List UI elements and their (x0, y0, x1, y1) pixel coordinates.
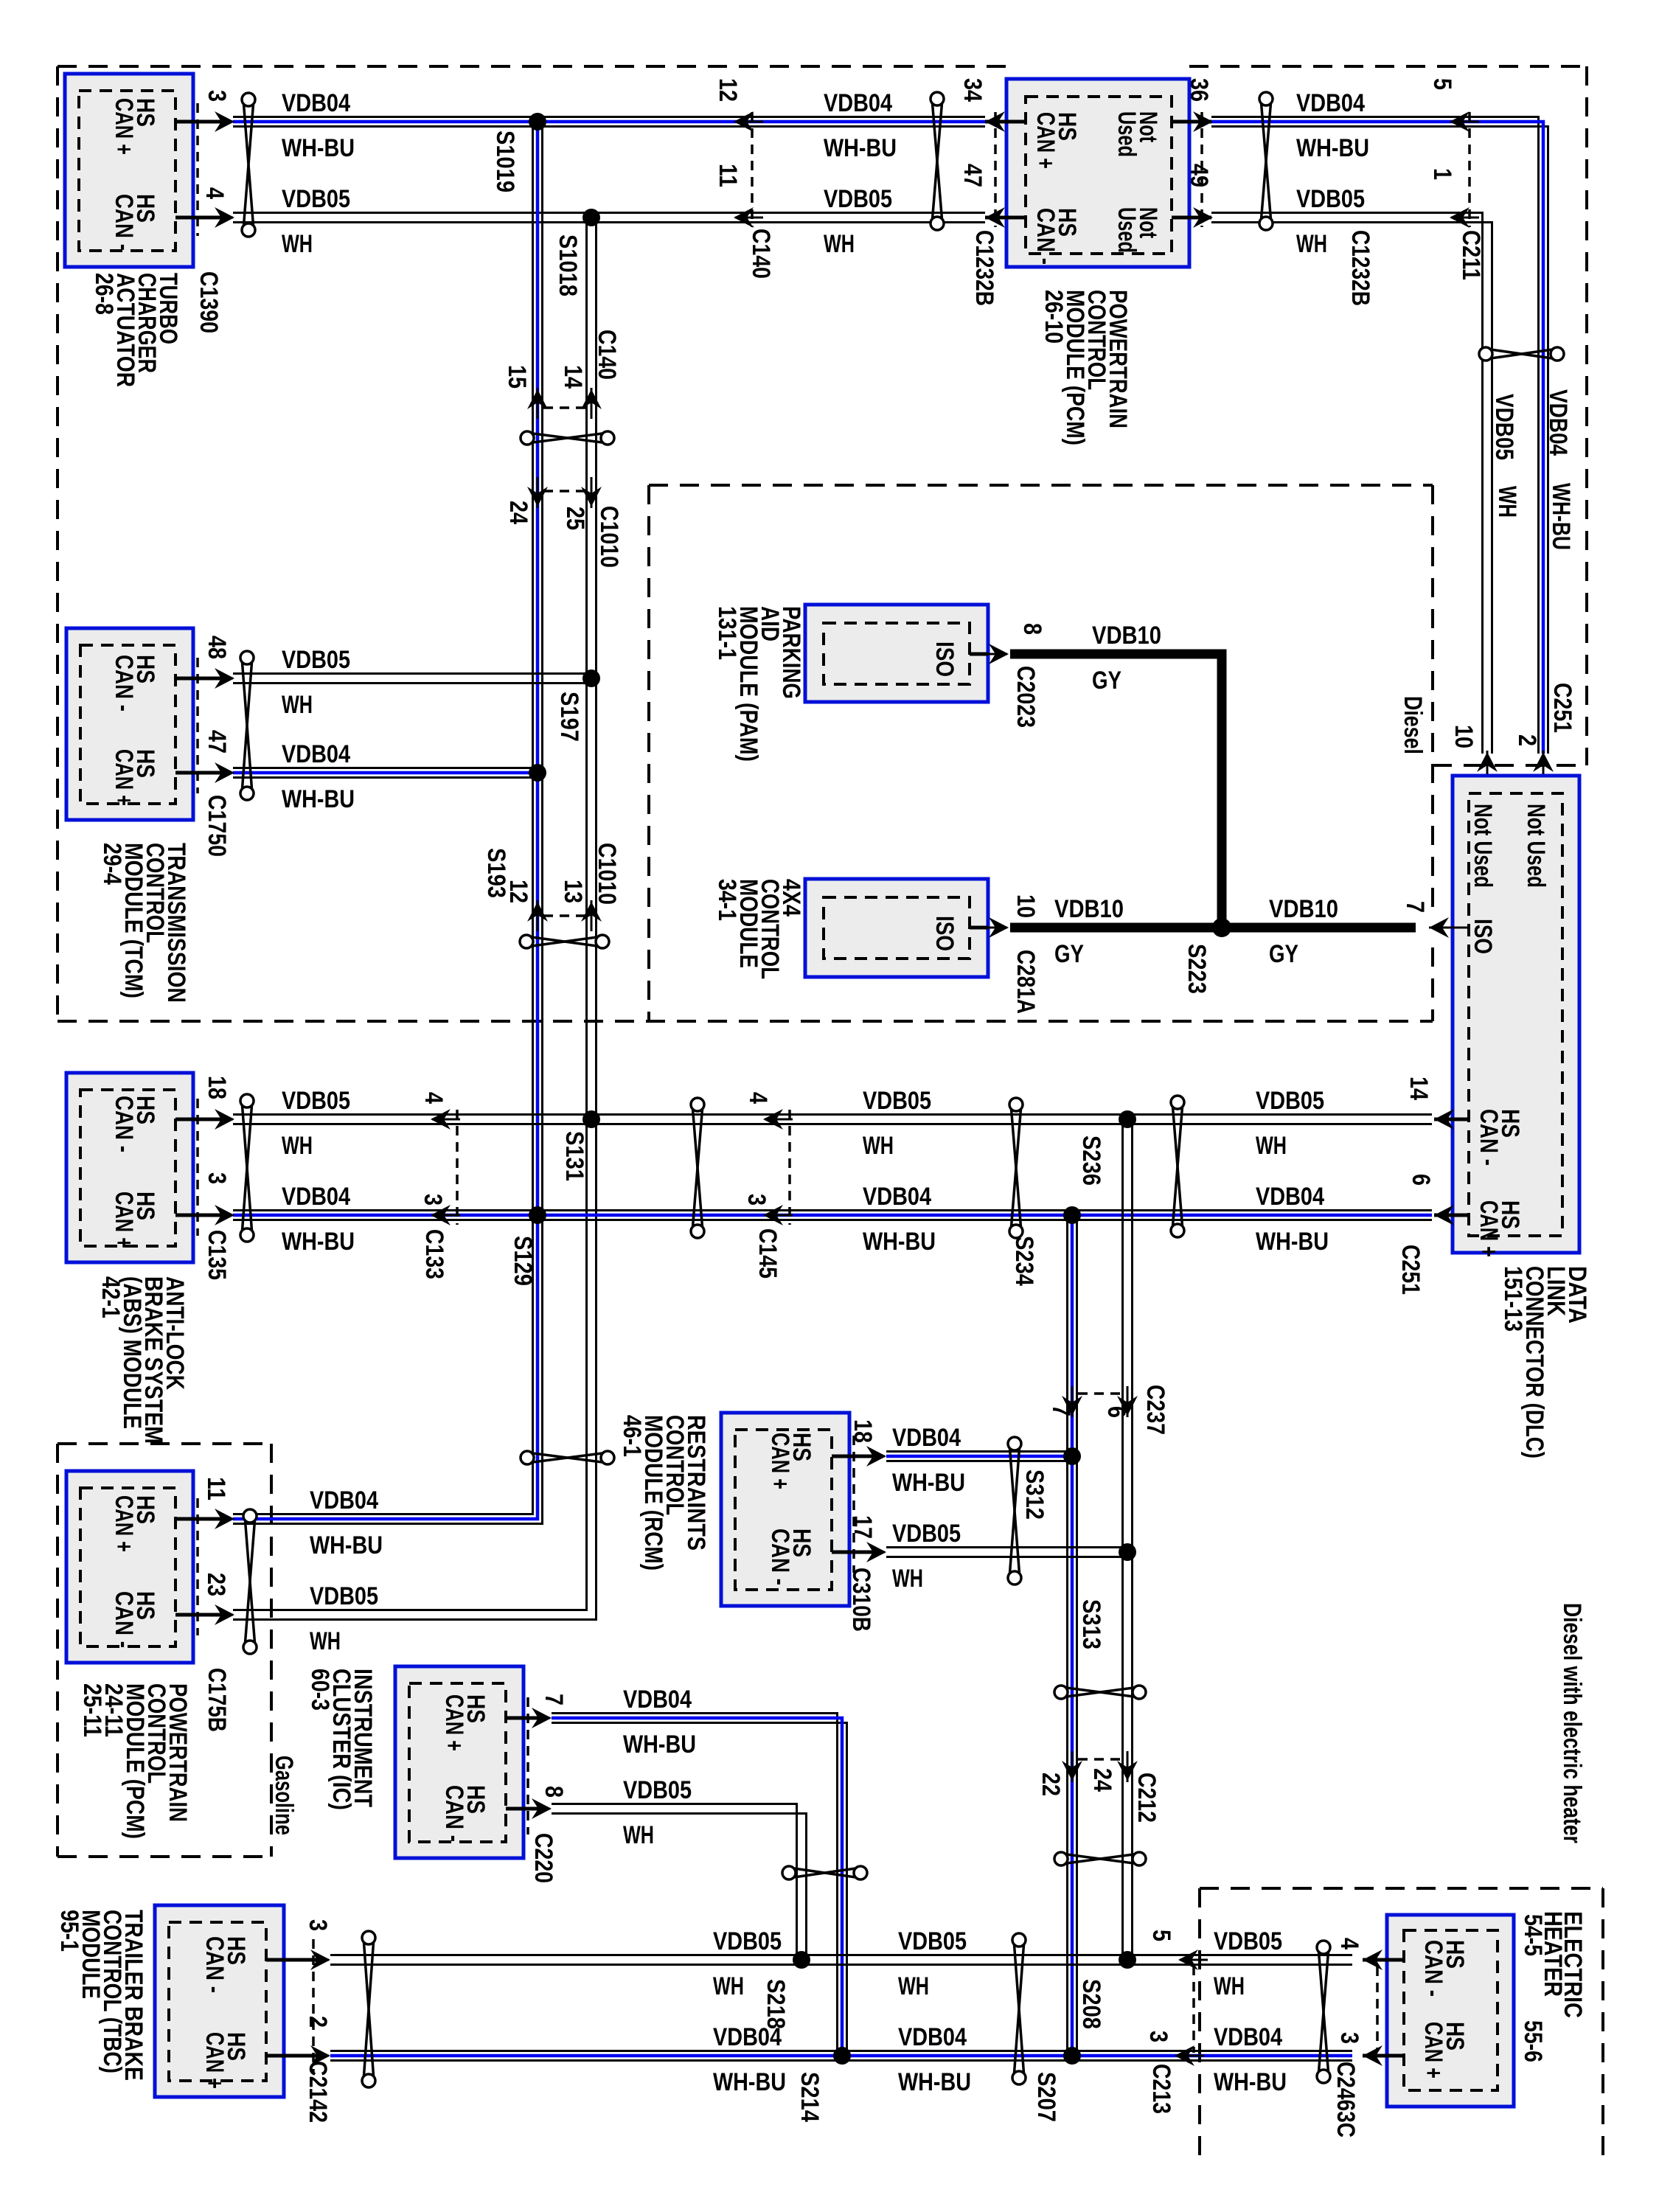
svg-text:ISO: ISO (1469, 919, 1497, 954)
svg-text:46-1: 46-1 (618, 1415, 646, 1457)
svg-text:GY: GY (1054, 940, 1084, 968)
box restraints control module (RCM) (721, 1413, 849, 1606)
box turbo charger actuator (65, 74, 193, 267)
diesel region dashed boundary bottom (58, 1020, 1433, 1023)
wire VDB05 WH PCM pin 49 to C211 and down to DLC pin 10 (1211, 213, 1483, 754)
svg-text:3: 3 (304, 1919, 332, 1931)
svg-text:CAN +: CAN + (110, 98, 138, 155)
svg-text:CAN +: CAN + (110, 1495, 138, 1552)
svg-text:CAN -: CAN - (1032, 208, 1060, 265)
svg-text:WH: WH (1493, 486, 1521, 518)
svg-text:CAN +: CAN + (1032, 112, 1060, 169)
svg-text:22: 22 (1037, 1773, 1065, 1796)
svg-text:34-1: 34-1 (713, 879, 741, 921)
svg-text:VDB05: VDB05 (1490, 394, 1518, 460)
svg-text:WH-BU: WH-BU (713, 2068, 786, 2096)
DLC pin 14 stub and arrow (1434, 1118, 1469, 1121)
svg-text:VDB04: VDB04 (1256, 1183, 1324, 1211)
diesel corridor dashed boundary right (1585, 66, 1588, 765)
svg-text:VDB04: VDB04 (623, 1686, 692, 1714)
svg-text:34: 34 (959, 78, 987, 102)
connector C133 pins 4 3 (432, 1119, 460, 1121)
svg-text:C212: C212 (1133, 1773, 1161, 1823)
wire VDB04 WH-BU vertical bus S1019 down to gasoline PCM pin 11 (233, 122, 533, 1514)
svg-text:5: 5 (1147, 1930, 1175, 1941)
svg-text:Used: Used (1113, 111, 1141, 157)
svg-text:CAN -: CAN - (110, 655, 138, 712)
twisted pair on vertical bus below C140 (527, 433, 608, 443)
svg-text:CAN +: CAN + (110, 1192, 138, 1248)
svg-text:54-5: 54-5 (1519, 1914, 1547, 1956)
svg-text:17: 17 (849, 1515, 877, 1539)
svg-text:WH-BU: WH-BU (1256, 1228, 1329, 1256)
svg-text:WH: WH (623, 1821, 654, 1849)
svg-text:S208: S208 (1077, 1979, 1105, 2029)
wire VDB04 WH-BU TBC pin 2 to electric heater pin 3 (330, 2050, 1352, 2052)
svg-text:VDB04: VDB04 (1214, 2023, 1282, 2051)
svg-text:VDB04: VDB04 (863, 1183, 931, 1211)
connector C237 pins 7 6 (1071, 1386, 1074, 1417)
connector C1010 pins 12 13 (537, 900, 539, 931)
svg-text:VDB10: VDB10 (1269, 895, 1338, 923)
svg-text:C1750: C1750 (203, 795, 231, 857)
svg-text:C1010: C1010 (595, 506, 623, 568)
svg-text:18: 18 (203, 1076, 231, 1099)
svg-text:VDB04: VDB04 (898, 2023, 967, 2051)
svg-text:VDB04: VDB04 (1296, 89, 1365, 117)
splice S129 (529, 1206, 546, 1224)
svg-text:C135: C135 (203, 1230, 231, 1280)
svg-text:S214: S214 (796, 2072, 824, 2122)
svg-text:Not Used: Not Used (1522, 804, 1550, 888)
svg-text:CAN -: CAN - (201, 1936, 229, 1993)
wire VDB05 WH vertical S236 to S208 (1121, 1119, 1124, 1960)
svg-text:VDB05: VDB05 (623, 1776, 692, 1804)
svg-text:VDB04: VDB04 (824, 89, 892, 117)
svg-text:Diesel with electric heater: Diesel with electric heater (1558, 1603, 1586, 1843)
DLC pin 7 stub and arrow (1429, 927, 1469, 929)
twisted pair on vertical bus above gasoline PCM (527, 1453, 608, 1463)
twisted pair at C135 (242, 1101, 252, 1235)
svg-text:3: 3 (203, 1172, 231, 1184)
svg-text:VDB05: VDB05 (282, 185, 350, 213)
svg-text:C1010: C1010 (593, 843, 621, 905)
svg-text:Diesel: Diesel (1399, 696, 1427, 754)
svg-text:VDB05: VDB05 (282, 1087, 350, 1115)
svg-text:3: 3 (742, 1194, 771, 1206)
svg-text:C220: C220 (529, 1833, 557, 1883)
svg-text:C310B: C310B (847, 1568, 875, 1632)
svg-text:Not Used: Not Used (1469, 804, 1497, 888)
svg-text:C213: C213 (1147, 2064, 1175, 2114)
svg-text:48: 48 (203, 636, 231, 659)
splice S313 (1119, 1543, 1136, 1561)
connector C213 pins 5 3 (1180, 1959, 1208, 1961)
svg-text:55-6: 55-6 (1519, 2020, 1547, 2062)
wire VDB04 WH-BU instrument cluster pin 7 to S214 (552, 1714, 838, 2056)
svg-text:C1232B: C1232B (1346, 230, 1374, 306)
svg-text:2: 2 (1513, 734, 1541, 746)
diesel region dashed boundary top-left (58, 65, 1006, 68)
twisted pair between C133 and C145 (692, 1105, 703, 1231)
svg-text:C2023: C2023 (1012, 666, 1040, 728)
svg-text:WH: WH (1214, 1972, 1245, 2000)
wire VDB05 WH instrument cluster pin 8 to S218 (552, 1804, 797, 1961)
svg-text:S236: S236 (1077, 1135, 1105, 1186)
splice S223 (1212, 918, 1231, 937)
twisted pair on RCM wires (1009, 1444, 1020, 1578)
svg-text:S1019: S1019 (491, 131, 519, 192)
svg-text:WH: WH (892, 1565, 923, 1593)
svg-text:WH: WH (824, 230, 855, 258)
svg-text:C175B: C175B (203, 1668, 231, 1732)
wire VDB05 WH RCM pin 17 to S313 (886, 1546, 1127, 1548)
svg-text:7: 7 (1047, 1405, 1075, 1416)
svg-text:C251: C251 (1548, 683, 1576, 733)
svg-text:95-1: 95-1 (55, 1910, 83, 1952)
svg-text:15: 15 (503, 365, 531, 389)
splice S312 (1063, 1447, 1081, 1465)
svg-text:S223: S223 (1183, 944, 1211, 994)
svg-text:6: 6 (1102, 1406, 1130, 1418)
svg-text:26-8: 26-8 (90, 273, 118, 315)
svg-text:47: 47 (959, 164, 987, 187)
svg-text:VDB04: VDB04 (1544, 389, 1572, 456)
svg-text:VDB05: VDB05 (713, 1927, 782, 1955)
twisted pair on vertical bus below C1010 (526, 936, 602, 947)
twisted pair left of PCM (932, 99, 942, 223)
svg-text:60-3: 60-3 (306, 1669, 334, 1711)
svg-text:131-1: 131-1 (713, 606, 741, 660)
svg-text:C1232B: C1232B (970, 230, 998, 306)
svg-text:C281A: C281A (1012, 950, 1040, 1014)
svg-text:S1018: S1018 (554, 234, 582, 296)
wire VDB04 WH-BU vertical S234 to S207 (1066, 1215, 1068, 2056)
svg-text:10: 10 (1450, 725, 1478, 748)
twisted pair at C2142 (364, 1938, 374, 2081)
svg-text:4: 4 (1335, 1938, 1363, 1950)
svg-text:10: 10 (1012, 894, 1040, 918)
middle region dashed boundary (647, 485, 650, 1021)
svg-text:CAN -: CAN - (110, 1591, 138, 1648)
svg-text:VDB04: VDB04 (282, 740, 350, 768)
svg-text:CAN -: CAN - (1475, 1109, 1503, 1166)
connector C211 pins 5 1 (1451, 121, 1479, 123)
svg-text:3: 3 (419, 1194, 447, 1206)
svg-text:26-10: 26-10 (1040, 290, 1068, 344)
wire VDB04 WH-BU TCM pin 47 to S193 (233, 767, 538, 769)
svg-text:C140: C140 (593, 330, 621, 380)
svg-text:2: 2 (304, 2016, 332, 2028)
svg-text:CAN -: CAN - (110, 194, 138, 251)
svg-text:14: 14 (559, 365, 587, 389)
svg-text:CAN +: CAN + (440, 1694, 468, 1751)
svg-text:3: 3 (203, 90, 231, 102)
svg-text:24: 24 (504, 501, 532, 524)
svg-text:WH-BU: WH-BU (863, 1228, 936, 1256)
svg-text:C140: C140 (747, 229, 775, 279)
svg-text:VDB05: VDB05 (898, 1927, 967, 1955)
svg-text:VDB05: VDB05 (863, 1087, 931, 1115)
svg-text:25-11: 25-11 (78, 1683, 106, 1737)
twisted pair at electric heater (1318, 1947, 1329, 2076)
wire VDB05 WH TCM pin 48 to S197 (233, 672, 591, 675)
splice S193 (529, 764, 546, 782)
splice S234 (1063, 1206, 1081, 1224)
svg-text:S218: S218 (762, 1979, 790, 2029)
svg-text:WH-BU: WH-BU (1214, 2068, 1287, 2096)
svg-text:11: 11 (714, 164, 742, 187)
svg-text:VDB10: VDB10 (1092, 622, 1161, 650)
svg-text:6: 6 (1407, 1174, 1435, 1186)
electric heater region dashed boundary (1200, 1887, 1603, 1890)
svg-text:8: 8 (1018, 623, 1046, 635)
wire VDB10 GY S223 to DLC pin 7 (1222, 923, 1416, 933)
svg-text:S207: S207 (1032, 2072, 1060, 2122)
svg-text:WH-BU: WH-BU (282, 785, 355, 813)
svg-text:C2463C: C2463C (1332, 2062, 1360, 2138)
twisted pair at C175B (245, 1516, 255, 1647)
svg-text:VDB04: VDB04 (282, 89, 350, 117)
svg-text:151-13: 151-13 (1499, 1266, 1527, 1332)
connector C140 pins 12 11 (735, 121, 763, 123)
connector C212 pins 22 24 (1071, 1751, 1074, 1782)
wire VDB04 WH-BU RCM pin 18 to S312 (886, 1450, 1072, 1453)
svg-text:7: 7 (540, 1694, 568, 1705)
svg-text:13: 13 (559, 880, 587, 903)
svg-text:CAN -: CAN - (110, 1096, 138, 1152)
splice S1018 (582, 209, 600, 226)
svg-text:S313: S313 (1077, 1599, 1105, 1649)
connector C1232B left pins 34 47 (987, 121, 1015, 123)
svg-text:14: 14 (1405, 1077, 1433, 1100)
svg-text:3: 3 (1335, 2032, 1363, 2044)
svg-text:C145: C145 (754, 1228, 782, 1279)
svg-text:C2142: C2142 (304, 2061, 332, 2123)
svg-text:CAN -: CAN - (440, 1785, 468, 1842)
svg-text:S197: S197 (555, 692, 583, 742)
twisted pair right of PCM (1261, 99, 1271, 223)
svg-text:VDB05: VDB05 (1296, 185, 1365, 213)
twisted pair on S-bus wires upper (1061, 1687, 1139, 1697)
svg-text:ISO: ISO (931, 916, 959, 951)
svg-text:C211: C211 (1457, 230, 1485, 280)
svg-text:WH-BU: WH-BU (282, 134, 355, 162)
module: electric heater (1387, 1915, 1514, 2107)
svg-text:7: 7 (1401, 901, 1429, 913)
splice S131 (582, 1110, 600, 1128)
twisted pair on TBC wires mid (1014, 1940, 1024, 2078)
svg-text:VDB05: VDB05 (892, 1520, 961, 1548)
svg-text:WH: WH (282, 691, 313, 719)
svg-text:VDB05: VDB05 (282, 646, 350, 674)
svg-text:VDB04: VDB04 (892, 1424, 961, 1452)
svg-text:WH: WH (282, 1132, 313, 1160)
svg-text:8: 8 (540, 1786, 568, 1798)
svg-text:CAN +: CAN + (1419, 2022, 1447, 2079)
svg-text:5: 5 (1428, 78, 1456, 90)
gasoline region dashed boundary (58, 1442, 271, 1445)
svg-text:12: 12 (714, 78, 742, 102)
svg-text:3: 3 (1144, 2031, 1172, 2042)
svg-text:4: 4 (420, 1092, 448, 1104)
splice S197 (582, 669, 600, 687)
svg-text:CAN +: CAN + (201, 2032, 229, 2089)
connector C145 pins 4 3 (765, 1119, 793, 1121)
svg-text:23: 23 (202, 1573, 230, 1596)
svg-text:VDB10: VDB10 (1054, 895, 1124, 923)
splice S208 (1119, 1951, 1136, 1969)
svg-text:WH: WH (713, 1972, 744, 2000)
splice S218 (793, 1951, 810, 1969)
svg-text:CAN +: CAN + (110, 749, 138, 806)
svg-text:WH: WH (282, 230, 313, 258)
box instrument cluster (IC) (395, 1666, 524, 1858)
svg-text:WH-BU: WH-BU (892, 1469, 965, 1497)
twisted pair on DLC wires (1172, 1102, 1183, 1231)
svg-text:GY: GY (1269, 940, 1298, 968)
svg-text:C133: C133 (420, 1229, 448, 1279)
connector C1232B right pins 36 49 (1183, 121, 1211, 123)
svg-text:VDB05: VDB05 (310, 1582, 378, 1610)
svg-text:VDB04: VDB04 (282, 1183, 350, 1211)
svg-text:CAN -: CAN - (1419, 1940, 1447, 1997)
wire VDB05 WH vertical bus S1018 down to gasoline PCM pin 23 (233, 218, 587, 1610)
splice S1019 (529, 113, 546, 131)
box anti-lock brake system (ABS) module (66, 1073, 193, 1262)
svg-text:WH-BU: WH-BU (898, 2068, 971, 2096)
svg-text:GY: GY (1092, 667, 1121, 695)
svg-text:S131: S131 (560, 1131, 588, 1181)
wire VDB10 GY 4X4 module pin 10 to S223 (1010, 923, 1222, 933)
svg-text:VDB04: VDB04 (310, 1486, 378, 1514)
module: 4x4 control module (805, 879, 988, 977)
svg-text:WH: WH (1296, 230, 1327, 258)
svg-text:VDB05: VDB05 (824, 185, 892, 213)
svg-text:VDB04: VDB04 (713, 2023, 782, 2051)
svg-text:C1390: C1390 (195, 271, 223, 333)
wire VDB05 WH turbo charger actuator to PCM pin 47 (233, 212, 985, 214)
box transmission control module (TCM) (66, 628, 193, 820)
svg-text:WH-BU: WH-BU (824, 134, 897, 162)
svg-text:WH: WH (1256, 1132, 1287, 1160)
svg-text:47: 47 (203, 730, 231, 754)
connector C1010 pins 24 25 (537, 477, 539, 508)
splice S214 (833, 2047, 851, 2065)
svg-text:CAN +: CAN + (766, 1433, 794, 1489)
svg-text:S129: S129 (509, 1236, 537, 1286)
svg-text:CAN +: CAN + (1475, 1200, 1503, 1257)
twisted pair on instrument cluster wires (789, 1868, 860, 1878)
svg-text:S234: S234 (1010, 1236, 1038, 1286)
twisted pair at C1390 (243, 100, 254, 230)
svg-text:WH-BU: WH-BU (1296, 134, 1369, 162)
wire VDB04 WH-BU PCM pin 36 to C211 and down to DLC pin 2 (1211, 117, 1539, 754)
svg-text:11: 11 (202, 1477, 230, 1500)
svg-text:4: 4 (744, 1092, 772, 1104)
svg-text:CAN -: CAN - (766, 1528, 794, 1585)
twisted pair left of S236 S234 (1011, 1105, 1021, 1231)
svg-text:29-4: 29-4 (98, 843, 126, 885)
svg-text:WH-BU: WH-BU (623, 1731, 696, 1759)
svg-text:1: 1 (1428, 168, 1456, 180)
svg-text:WH: WH (898, 1972, 929, 2000)
twisted pair on S-bus wires lower (1061, 1854, 1139, 1864)
wire VDB04 WH-BU turbo charger actuator to PCM pin 34 (233, 116, 985, 118)
svg-text:C237: C237 (1141, 1385, 1169, 1435)
svg-text:4: 4 (201, 187, 229, 199)
DLC pin 6 stub and arrow (1434, 1214, 1469, 1217)
svg-text:WH: WH (310, 1627, 341, 1655)
svg-text:C251: C251 (1397, 1245, 1425, 1295)
box powertrain control module (PCM) gasoline (66, 1471, 193, 1663)
wire VDB05 WH ABS pin 18 to DLC pin 14 (233, 1113, 1432, 1116)
connector C140 vertical pins 15 14 (537, 388, 539, 419)
svg-text:ISO: ISO (931, 641, 959, 677)
svg-text:42-1: 42-1 (97, 1276, 125, 1318)
svg-text:18: 18 (849, 1419, 877, 1443)
splice S236 (1119, 1110, 1136, 1128)
svg-text:WH-BU: WH-BU (282, 1228, 355, 1256)
twisted pair on diesel corridor wires (1486, 349, 1557, 359)
wire VDB10 GY PAM pin 8 to S223 (1010, 654, 1222, 923)
svg-text:VDB05: VDB05 (1256, 1087, 1324, 1115)
svg-text:WH: WH (863, 1132, 894, 1160)
svg-text:VDB05: VDB05 (1214, 1927, 1282, 1955)
wire VDB05 WH TBC pin 3 to electric heater pin 4 (330, 1954, 1352, 1956)
svg-text:12: 12 (504, 880, 532, 903)
svg-text:WH-BU: WH-BU (310, 1531, 383, 1559)
svg-text:25: 25 (561, 507, 589, 530)
box trailer brake control (TBC) module (155, 1905, 284, 2097)
svg-text:S312: S312 (1020, 1470, 1048, 1520)
splice S207 (1063, 2047, 1081, 2065)
svg-text:Gasoline: Gasoline (270, 1756, 298, 1835)
svg-text:Used: Used (1113, 207, 1141, 253)
wire VDB04 WH-BU ABS pin 3 to DLC pin 6 (233, 1209, 1432, 1211)
connector C251 top pins 10 2 (1486, 751, 1489, 782)
module: data link connector DLC (1453, 776, 1579, 1253)
module: parking aid module (805, 605, 988, 702)
svg-text:24: 24 (1088, 1768, 1116, 1792)
module: powertrain control module diesel (1006, 79, 1189, 267)
twisted pair at C1750 (242, 658, 252, 793)
svg-text:WH-BU: WH-BU (1547, 483, 1575, 550)
